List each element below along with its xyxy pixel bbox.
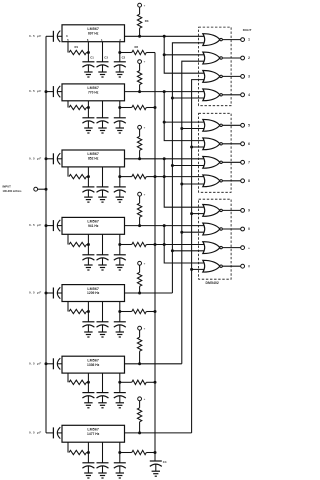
wire pin6 U2: [87, 101, 89, 118]
wire 1336 to gate5 input: [182, 128, 205, 130]
svg-text:1336 Hz: 1336 Hz: [87, 363, 100, 367]
svg-text:1477 Hz: 1477 Hz: [87, 432, 100, 436]
tone decoder U4 LM567 941 Hz: [62, 217, 125, 234]
svg-text:#: #: [248, 264, 250, 268]
wire pin2 U5: [119, 302, 121, 322]
wire pin6 U6: [87, 373, 89, 393]
ground U5 3: [116, 332, 124, 337]
tone decoder U6 LM567 1336 Hz: [62, 356, 125, 373]
V+ terminal U2: [138, 60, 146, 64]
wire U3 output row 852: [125, 158, 205, 160]
wire 1477 to gate9 input: [192, 213, 205, 215]
node 697 to gate2: [163, 53, 166, 56]
node pin2 junction U6: [118, 381, 121, 384]
node pull-up junction U7: [138, 431, 141, 434]
wire pin1 U5: [102, 302, 104, 322]
capacitor bypass U4 pin: [82, 255, 94, 265]
resistor timing U4: [69, 242, 88, 246]
wire 770 to gate5 input: [164, 121, 205, 123]
wire pin6 U7: [87, 442, 89, 463]
node 941 row tap: [163, 224, 166, 227]
wire 852Hz bus: [164, 159, 205, 207]
node input bus to U4: [45, 224, 48, 227]
capacitor 0.5uF coupling U3: [29, 153, 60, 164]
svg-text:INPUT: INPUT: [3, 185, 12, 189]
resistor R2 U1: [120, 45, 155, 55]
output terminal DIGIT #: [241, 264, 250, 268]
NOR gate G6: [203, 138, 223, 150]
node pull-up junction U3: [138, 157, 141, 160]
svg-text:C4: C4: [163, 460, 167, 464]
NOR gate G10: [203, 223, 223, 235]
wire output G11: [222, 247, 240, 249]
node 1209 to gate11: [171, 249, 174, 252]
wire pin6 U1: [87, 42, 89, 62]
svg-text:LM567: LM567: [87, 86, 99, 90]
tone decoder U1 LM567 697 Hz: [62, 25, 125, 42]
capacitor bypass U6 pin: [97, 393, 109, 403]
wire bus to cap U4: [46, 225, 53, 227]
wire pin5 U1: [67, 42, 69, 53]
node pin6 junction U5: [87, 310, 90, 313]
resistor pull-up U6: [137, 330, 141, 364]
ground U5 1: [84, 332, 92, 337]
capacitor bypass U7 pin: [97, 463, 109, 473]
wire pin1 U2: [102, 101, 104, 118]
node 1209 to gate4: [171, 97, 174, 100]
svg-text:1: 1: [248, 38, 250, 42]
wire 1477 to gate12 input: [192, 268, 205, 270]
wire pin5 U4: [67, 234, 69, 244]
capacitor bypass U2 pin: [114, 118, 126, 128]
svg-text:941 Hz: 941 Hz: [88, 224, 99, 228]
output terminal DIGIT 2: [241, 56, 250, 60]
svg-text:8: 8: [248, 179, 250, 183]
V+ terminal U3: [138, 125, 146, 129]
V+ terminal U7: [138, 397, 146, 401]
node pull-up junction U6: [138, 362, 141, 365]
wire output G8: [222, 180, 240, 182]
svg-text:LM567: LM567: [87, 287, 99, 291]
wire R2 common bus: [154, 53, 156, 462]
wire output G5: [222, 124, 240, 126]
svg-text:C2: C2: [122, 56, 126, 60]
node 1336 to gate5: [180, 127, 183, 130]
capacitor bypass U6 pin: [114, 393, 126, 403]
wire 1209 to gate7 input: [172, 165, 204, 167]
ground U7 2: [98, 473, 106, 478]
wire U1 output row 697: [125, 35, 205, 37]
V+ terminal U4: [138, 192, 146, 196]
wire pin5 U5: [67, 302, 69, 312]
NOR gate G12: [203, 260, 223, 272]
ground C4: [152, 471, 160, 476]
wire 1336Hz bus: [182, 61, 205, 364]
wire output G12: [222, 265, 240, 267]
DM5402 package box 3: [199, 199, 232, 279]
svg-text:0.5 µF: 0.5 µF: [29, 223, 42, 227]
capacitor bypass U5 pin: [114, 322, 126, 332]
capacitor C1 U1 pin: [82, 56, 94, 73]
DM5402 package box 1: [199, 27, 232, 106]
capacitor 0.5uF coupling U6: [29, 358, 60, 369]
svg-text:LM567: LM567: [87, 358, 99, 362]
capacitor bypass U4 pin: [97, 255, 109, 265]
wire 1336 to gate8 input: [182, 183, 205, 185]
node input bus to U5: [45, 292, 48, 295]
node pin2 junction U2: [118, 106, 121, 109]
capacitor C2 U1 pin: [114, 56, 126, 73]
wire cap to pin 3 U4: [58, 225, 63, 227]
output terminal DIGIT 3: [241, 75, 250, 79]
wire U6 output row 1336: [125, 363, 182, 365]
svg-text:R3: R3: [145, 19, 149, 23]
svg-text:0.5 µF: 0.5 µF: [29, 361, 42, 365]
V+ terminal U1: [138, 3, 146, 7]
capacitor bypass U4 pin: [114, 255, 126, 265]
wire 697Hz bus: [164, 36, 205, 73]
svg-text:100-200 mVrms: 100-200 mVrms: [3, 189, 22, 193]
output terminal DIGIT 6: [241, 142, 250, 146]
svg-text:770 Hz: 770 Hz: [88, 91, 99, 95]
wire output G1: [222, 39, 240, 41]
resistor timing U3: [69, 174, 88, 178]
capacitor bypass U3 pin: [82, 187, 94, 197]
wire cap to pin 3 U5: [58, 292, 63, 294]
input terminal: [3, 185, 38, 193]
wire pin2 U4: [119, 234, 121, 255]
svg-text:6: 6: [248, 142, 250, 146]
node input bus to U2: [45, 90, 48, 93]
tone decoder U5 LM567 1209 Hz: [62, 285, 125, 302]
wire U5 output row 1209: [125, 292, 173, 294]
svg-text:LM567: LM567: [87, 220, 99, 224]
resistor timing U2: [69, 105, 88, 109]
ground U3 1: [84, 197, 92, 202]
capacitor bypass U6 pin: [82, 393, 94, 403]
wire pin6 U3: [87, 167, 89, 187]
node R2 bus U5: [154, 310, 157, 313]
V+ terminal U5: [138, 261, 146, 265]
wire pin1 U7: [102, 442, 104, 463]
wire 770Hz bus: [164, 92, 205, 141]
node 770 row tap: [163, 90, 166, 93]
output terminal DIGIT 8: [241, 179, 250, 183]
node pin2 junction U4: [118, 243, 121, 246]
svg-text:R1: R1: [75, 45, 79, 49]
node input bus to U6: [45, 362, 48, 365]
NOR gate G5: [203, 119, 223, 131]
DM5402 package box 2: [199, 113, 232, 192]
svg-text:0.5 µF: 0.5 µF: [29, 34, 42, 38]
node 1336 to gate8: [180, 183, 183, 186]
svg-text:852 Hz: 852 Hz: [88, 157, 99, 161]
node pin6 junction U1: [87, 51, 90, 54]
output terminal DIGIT 4: [241, 93, 250, 97]
NOR gate G3: [203, 70, 223, 82]
wire pin6 U4: [87, 234, 89, 255]
ground U2 2: [98, 128, 106, 133]
capacitor bypass U5 pin: [82, 322, 94, 332]
node pull-up junction U2: [138, 90, 141, 93]
wire cap to pin 3 U2: [58, 91, 63, 93]
ground U2 3: [116, 128, 124, 133]
resistor R2 U7: [120, 450, 155, 454]
label DM5402: [206, 281, 219, 285]
wire pin5 U6: [67, 373, 69, 382]
resistor timing U6: [69, 380, 88, 384]
svg-text:7: 7: [248, 160, 250, 164]
svg-text:0.5 µF: 0.5 µF: [29, 89, 42, 93]
wire U4 output row 941: [125, 225, 205, 227]
tone decoder U2 LM567 770 Hz: [62, 84, 125, 101]
wire 697 to gate2 input: [164, 54, 205, 56]
capacitor 0.5uF coupling U2: [29, 86, 60, 97]
svg-text:5: 5: [248, 123, 250, 127]
node 941 to gate11: [163, 243, 166, 246]
svg-text:0.5 µF: 0.5 µF: [29, 156, 42, 160]
wire 1209 to gate4 input: [172, 97, 204, 99]
wire pin1 U4: [102, 234, 104, 255]
node input bus junction: [45, 188, 48, 191]
wire output G10: [222, 228, 240, 230]
ground U6 2: [98, 403, 106, 408]
wire 941 to gate11 input: [155, 244, 205, 246]
wire cap to pin 3 U1: [58, 35, 63, 37]
tone decoder U7 LM567 1477 Hz: [62, 425, 125, 442]
wire pin5 U7: [67, 442, 69, 452]
output terminal DIGIT 1: [241, 38, 250, 42]
wire bus to cap U2: [46, 91, 53, 93]
node 1477 to gate6: [190, 146, 193, 149]
ground U4 1: [84, 265, 92, 270]
node pull-up junction U5: [138, 292, 141, 295]
wire bus to cap U7: [46, 432, 53, 434]
wire pin2 U7: [119, 442, 121, 463]
wire 1477Hz bus: [192, 80, 205, 433]
capacitor bypass U5 pin: [97, 322, 109, 332]
NOR gate G4: [203, 89, 223, 101]
node 852 row tap: [163, 157, 166, 160]
wire output G6: [222, 143, 240, 145]
ground U4 3: [116, 265, 124, 270]
resistor R3 U1: [137, 7, 148, 36]
wire U7 output row 1477: [125, 432, 192, 434]
wire input bus: [45, 36, 47, 433]
wire output G2: [222, 57, 240, 59]
wire pin6 U5: [87, 302, 89, 322]
ground U1 1: [84, 72, 92, 77]
node 770 to gate5: [163, 121, 166, 124]
node R2 bus U2: [154, 106, 157, 109]
wire bus to cap U1: [46, 35, 53, 37]
node input bus to U3: [45, 157, 48, 160]
wire output G4: [222, 94, 240, 96]
wire pin5 U2: [67, 101, 69, 108]
wire 1209Hz bus: [172, 43, 204, 293]
svg-text:3: 3: [248, 75, 250, 79]
wire bus to cap U6: [46, 363, 53, 365]
svg-text:1209 Hz: 1209 Hz: [87, 291, 100, 295]
wire pin2 U3: [119, 167, 121, 187]
wire cap to pin 3 U7: [58, 432, 63, 434]
output terminal DIGIT 5: [241, 123, 250, 127]
output terminal DIGIT 9: [241, 209, 250, 213]
ground U6 3: [116, 403, 124, 408]
wire pin1 U6: [102, 373, 104, 393]
ground U2 1: [84, 128, 92, 133]
resistor pull-up U2: [137, 64, 141, 92]
svg-text:C3: C3: [104, 56, 108, 60]
wire pin1 U3: [102, 167, 104, 187]
resistor timing U7: [69, 450, 88, 454]
wire output G9: [222, 209, 240, 211]
tone decoder U3 LM567 852 Hz: [62, 150, 125, 167]
wire pin2 U6: [119, 373, 121, 393]
svg-text:R2: R2: [135, 45, 139, 49]
node 1209 to gate7: [171, 164, 174, 167]
node pin6 junction U4: [87, 243, 90, 246]
wire pin1 U1: [102, 42, 104, 62]
ground U7 1: [84, 473, 92, 478]
capacitor C4: [150, 460, 167, 471]
capacitor bypass U7 pin: [82, 463, 94, 473]
output terminal DIGIT 7: [241, 160, 250, 164]
node pull-up junction U1: [138, 35, 141, 38]
NOR gate G2: [203, 52, 223, 64]
node pin2 junction U1: [118, 51, 121, 54]
svg-text:4: 4: [248, 93, 250, 97]
resistor R2 U4: [120, 242, 155, 246]
svg-text:C1: C1: [90, 56, 94, 60]
node 1336 to gate10: [180, 231, 183, 234]
svg-text:LM567: LM567: [87, 428, 99, 432]
ground U3 2: [98, 197, 106, 202]
svg-text:DIGIT: DIGIT: [243, 28, 252, 32]
capacitor bypass U3 pin: [97, 187, 109, 197]
wire bus to cap U3: [46, 158, 53, 160]
capacitor bypass U2 pin: [82, 118, 94, 128]
node pin6 junction U7: [87, 451, 90, 454]
ground U1 2: [98, 72, 106, 77]
wire 852 to gate8 input: [155, 176, 205, 178]
capacitor bypass U3 pin: [114, 187, 126, 197]
node pin6 junction U2: [87, 106, 90, 109]
node R2 bus U7: [154, 451, 157, 454]
node R2 bus to gate8 line: [154, 175, 157, 178]
node 697 row tap: [163, 35, 166, 38]
resistor timing U1 R1: [69, 45, 88, 55]
label DIGIT: [243, 28, 252, 32]
capacitor C3 U1 pin: [97, 56, 109, 73]
wire bus to cap U5: [46, 292, 53, 294]
wire 1477 to gate6 input: [192, 146, 205, 148]
svg-text:0.5 µF: 0.5 µF: [29, 431, 42, 435]
node pin6 junction U3: [87, 175, 90, 178]
svg-text:DM5402: DM5402: [206, 281, 219, 285]
ground U4 2: [98, 265, 106, 270]
capacitor 0.5uF coupling U4: [29, 220, 60, 231]
resistor R2 U3: [120, 174, 155, 178]
NOR gate G9: [203, 204, 223, 216]
node pin2 junction U7: [118, 451, 121, 454]
wire pin2 U2: [119, 101, 121, 118]
resistor timing U5: [69, 309, 88, 313]
resistor pull-up U4: [137, 196, 141, 226]
node pull-up junction U4: [138, 224, 141, 227]
output terminal DIGIT 0: [241, 227, 250, 231]
svg-text:LM567: LM567: [87, 152, 99, 156]
wire cap to pin 3 U3: [58, 158, 63, 160]
svg-text:9: 9: [248, 209, 250, 213]
node pin2 junction U3: [118, 175, 121, 178]
wire input terminal to bus: [38, 188, 46, 190]
capacitor bypass U7 pin: [114, 463, 126, 473]
capacitor 0.5uF coupling U1: [29, 31, 60, 42]
svg-text:0: 0: [248, 227, 250, 231]
svg-text:0.5 µF: 0.5 µF: [29, 291, 42, 295]
wire pin5 U3: [67, 167, 69, 177]
node R2 bus to gate11 line: [154, 243, 157, 246]
node pin2 junction U5: [118, 310, 121, 313]
ground U3 3: [116, 197, 124, 202]
svg-text:697 Hz: 697 Hz: [88, 31, 99, 35]
wire cap to pin 3 U6: [58, 363, 63, 365]
node 852 to gate8: [163, 175, 166, 178]
resistor R2 U6: [120, 380, 155, 384]
ground U7 3: [116, 473, 124, 478]
ground U5 2: [98, 332, 106, 337]
capacitor 0.5uF coupling U5: [29, 287, 60, 298]
svg-text:2: 2: [248, 56, 250, 60]
wire output G7: [222, 161, 240, 163]
resistor pull-up U5: [137, 265, 141, 293]
resistor pull-up U7: [137, 401, 141, 433]
ground U1 3: [116, 72, 124, 77]
wire 1209 to gate11 input: [172, 250, 204, 252]
NOR gate G7: [203, 156, 223, 168]
capacitor 0.5uF coupling U7: [29, 427, 60, 438]
NOR gate G11: [203, 242, 223, 254]
wire U2 output row 770: [125, 91, 205, 93]
wire 1336 to gate10 input: [182, 231, 205, 233]
NOR gate G1: [203, 34, 223, 46]
node 1477 to gate12: [190, 268, 193, 271]
NOR gate G8: [203, 175, 223, 187]
svg-text:LM567: LM567: [87, 27, 99, 31]
output terminal DIGIT *: [241, 246, 251, 251]
V+ terminal U6: [138, 326, 146, 330]
ground U6 1: [84, 403, 92, 408]
capacitor bypass U2 pin: [97, 118, 109, 128]
node R2 bus U6: [154, 381, 157, 384]
node 1477 to gate9: [190, 212, 193, 215]
resistor R2 U2: [120, 105, 155, 109]
resistor R2 U5: [120, 309, 155, 313]
wire 941Hz bus: [164, 226, 205, 263]
node pin6 junction U6: [87, 381, 90, 384]
resistor pull-up U3: [137, 129, 141, 159]
wire pin2 U1: [119, 42, 121, 62]
wire output G3: [222, 75, 240, 77]
